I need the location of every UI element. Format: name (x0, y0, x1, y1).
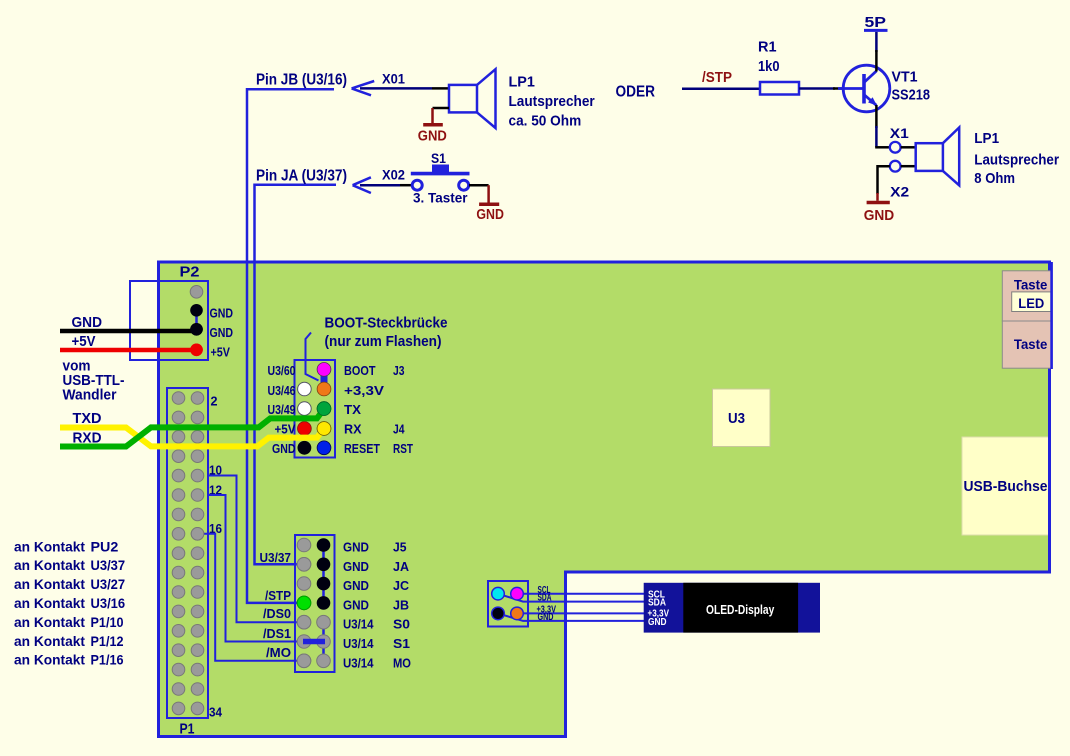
P2 pin 2 GND (black) (190, 304, 203, 317)
BOOT pin RESET (blue) (317, 441, 331, 455)
BOOT pin BOOT (magenta) (317, 363, 331, 377)
button Taste upper (pink box) (1002, 271, 1051, 321)
transistor VT1 emitter slant (865, 95, 877, 105)
header pin U3/37 redraw (on top of wire) (297, 558, 311, 572)
svg-text:U3/37: U3/37 (91, 557, 126, 573)
wire X01 net (360, 87, 432, 90)
svg-text:Pin JA (U3/37): Pin JA (U3/37) (256, 168, 347, 185)
svg-text:an Kontakt: an Kontakt (14, 614, 85, 630)
svg-text:RX: RX (344, 421, 362, 436)
svg-text:Pin JB (U3/16): Pin JB (U3/16) (256, 72, 347, 89)
svg-text:5P: 5P (865, 14, 887, 31)
svg-text:34: 34 (209, 706, 222, 720)
svg-text:J5: J5 (393, 540, 407, 555)
svg-text:TXD: TXD (73, 410, 102, 427)
BOOT pin +3,3V (orange) (317, 382, 331, 396)
svg-text:PU2: PU2 (91, 538, 119, 554)
pin lead LP1 bottom (433, 107, 450, 110)
svg-text:JA: JA (393, 559, 410, 574)
pin lead S1 right (469, 184, 489, 187)
OLED pin SDA (magenta) (511, 587, 524, 600)
svg-text:LED: LED (1018, 296, 1044, 311)
speaker LP1 50 Ohm horn (477, 69, 496, 128)
svg-text:P1/10: P1/10 (91, 614, 124, 630)
svg-text:/MO: /MO (266, 645, 291, 660)
svg-text:X1: X1 (890, 125, 909, 141)
svg-text:+5V: +5V (211, 345, 231, 360)
svg-text:/DS0: /DS0 (263, 606, 291, 621)
svg-text:S1: S1 (393, 636, 410, 651)
svg-text:SDA: SDA (538, 593, 552, 604)
svg-text:U3/14: U3/14 (343, 636, 374, 651)
header pin /DS0 redraw (on top of wire) (297, 615, 311, 629)
arrow X02 (353, 177, 371, 193)
svg-text:GND: GND (476, 207, 504, 223)
svg-text:ODER: ODER (616, 84, 656, 101)
header pin S1 (gray) (317, 635, 331, 649)
svg-text:U3: U3 (728, 411, 745, 427)
svg-text:LP1: LP1 (974, 130, 999, 147)
svg-text:GND: GND (343, 578, 369, 593)
svg-text:U3/27: U3/27 (91, 576, 126, 592)
P2 pin 3 GND redraw (on top of wire) (190, 323, 203, 336)
board PCB (green, L-shaped) (159, 262, 1050, 737)
svg-text:U3/49: U3/49 (268, 402, 296, 417)
speaker LP1 8 Ohm body (916, 143, 943, 171)
pin lead LP1 top (432, 87, 449, 90)
svg-text:an Kontakt: an Kontakt (14, 538, 85, 554)
header pin row5 left (gray) (297, 615, 311, 629)
resistor R1 (760, 82, 799, 95)
svg-text:X01: X01 (382, 71, 405, 87)
svg-text:2: 2 (211, 395, 218, 409)
chip U3 box (713, 389, 771, 447)
board right edge over USB box (1048, 436, 1051, 537)
wire Pin JA to U3/37 pin (255, 185, 337, 565)
svg-text:/DS1: /DS1 (263, 626, 291, 641)
wire R1 to VT1 base (799, 87, 835, 90)
svg-text:an Kontakt: an Kontakt (14, 652, 85, 668)
BOOT jumper link (magenta-orange) (321, 369, 328, 389)
ground GND at VT1 (867, 201, 890, 205)
OLED-Display module (644, 583, 820, 633)
svg-text:+5V: +5V (72, 333, 96, 350)
wire X02 net (360, 184, 400, 187)
arrow X01 (352, 81, 375, 95)
switch S1 contact left (412, 180, 422, 190)
connector P2 box (130, 281, 208, 360)
BOOT pin RX redraw (on top of wire) (317, 422, 331, 436)
svg-text:MO: MO (393, 655, 411, 670)
svg-text:X2: X2 (890, 184, 909, 200)
svg-text:+3,3V: +3,3V (344, 383, 384, 398)
header pin row1 left (gray) (297, 538, 311, 552)
svg-text:Taste: Taste (1014, 277, 1048, 293)
header pin row3 left (gray) (297, 577, 311, 591)
switch S1 contact right (459, 180, 469, 190)
svg-text:U3/37: U3/37 (260, 550, 292, 565)
svg-text:GND: GND (648, 616, 667, 628)
P2 pin 4 +5V redraw (on top of wire) (190, 344, 203, 357)
P1 pin 16 redraw (on top of wire) (191, 528, 204, 541)
transistor VT1 base bar (862, 74, 866, 104)
BOOT pin U3/46 (white) (298, 382, 312, 396)
OLED pin GND (black) (492, 607, 505, 620)
svg-text:GND: GND (343, 597, 369, 612)
header pin GND J5 (black) (317, 538, 331, 552)
svg-text:RST: RST (393, 441, 413, 456)
svg-text:P1/16: P1/16 (91, 652, 124, 668)
OLED pin SCL (cyan) (492, 587, 505, 600)
svg-text:TX: TX (344, 402, 361, 417)
BOOT pin TX (green) (317, 402, 331, 416)
svg-text:USB-Buchse: USB-Buchse (964, 479, 1048, 495)
wire P1/16 to /MO (198, 534, 305, 661)
BOOT pin RX (yellow) (317, 422, 331, 436)
svg-text:JB: JB (393, 597, 409, 612)
wire SCL (517, 593, 646, 595)
svg-text:3. Taster: 3. Taster (413, 191, 468, 206)
svg-text:an Kontakt: an Kontakt (14, 595, 85, 611)
pointer line BOOT label to pin (306, 333, 319, 381)
header pin /STP redraw (on top of wire) (297, 596, 311, 610)
header pin GND JC (black) (317, 577, 331, 591)
pin lead S1 left (400, 184, 412, 187)
wire X2 to GND (878, 166, 890, 194)
BOOT pin TX redraw (on top of wire) (317, 402, 331, 416)
P1 pins (17 rows x 2) (172, 392, 204, 715)
svg-text:GND: GND (210, 306, 234, 321)
P2 pin 4 +5V (red) (190, 344, 203, 357)
header BOOT box (295, 360, 336, 458)
svg-text:an Kontakt: an Kontakt (14, 633, 85, 649)
connector P1 box (167, 388, 208, 718)
svg-text:GND: GND (418, 129, 447, 145)
wire P1/12 to /DS1 (208, 495, 304, 642)
svg-text:Lautsprecher: Lautsprecher (974, 151, 1059, 168)
svg-text:ca. 50 Ohm: ca. 50 Ohm (509, 112, 582, 129)
svg-text:R1: R1 (758, 39, 777, 56)
svg-text:LP1: LP1 (509, 74, 535, 91)
wire SDA (498, 594, 646, 602)
pin lead X1 to LP1 (901, 146, 916, 149)
svg-text:U3/60: U3/60 (268, 363, 296, 378)
P2 jumper link pins 2-3 (195, 310, 198, 329)
wire +5V (red) (60, 348, 197, 353)
BOOT pin U3/49 (white) (298, 402, 312, 416)
svg-text:BOOT: BOOT (344, 363, 376, 378)
ground GND at S1 (487, 185, 490, 203)
button Taste lower (pink box) (1002, 321, 1051, 368)
svg-text:SS218: SS218 (892, 87, 931, 104)
svg-text:OLED-Display: OLED-Display (706, 602, 775, 617)
ground GND at LP1 (431, 108, 434, 124)
wire TXD (yellow) (60, 428, 324, 447)
wire P1/10 to /DS0 (208, 476, 304, 623)
transistor VT1 circle (843, 65, 890, 112)
svg-text:P1/12: P1/12 (91, 633, 124, 649)
svg-text:GND: GND (72, 314, 103, 331)
switch S1 bar (411, 172, 470, 176)
svg-text:an Kontakt: an Kontakt (14, 576, 85, 592)
board right edge beside Taste boxes (1050, 262, 1053, 369)
wire emitter to X1 (875, 105, 878, 128)
svg-text:GND: GND (343, 559, 369, 574)
transistor VT1 base lead (838, 87, 863, 90)
svg-text:GND: GND (272, 441, 296, 456)
svg-text:J3: J3 (393, 363, 405, 378)
node X1 (890, 142, 901, 153)
svg-text:1k0: 1k0 (758, 58, 780, 75)
svg-text:S0: S0 (393, 617, 410, 632)
svg-text:Lautsprecher: Lautsprecher (509, 93, 595, 110)
svg-text:VT1: VT1 (892, 69, 918, 86)
transistor VT1 emitter arrow (868, 97, 877, 106)
USB-Buchse box (962, 437, 1050, 535)
BOOT pin +5V (red) (298, 422, 312, 436)
svg-text:X02: X02 (382, 167, 405, 183)
header pin row7 left (gray) (297, 654, 311, 668)
header J5..MO box (295, 535, 335, 672)
LED box (1012, 292, 1051, 312)
OLED 4-pin connector box (488, 581, 528, 627)
svg-text:J4: J4 (393, 421, 405, 436)
svg-text:BOOT-Steckbrücke: BOOT-Steckbrücke (325, 315, 448, 332)
svg-text:GND: GND (864, 207, 895, 224)
link pins rows5-7 (322, 622, 325, 661)
link GND pins rows1-4 (322, 545, 325, 603)
wire ODER to R1 (682, 88, 760, 91)
pin lead X2 to LP1 (901, 165, 916, 168)
svg-text:RESET: RESET (344, 441, 380, 456)
transistor VT1 collector slant (865, 71, 877, 82)
P2 pin 1 (gray) (190, 286, 203, 299)
BOOT pin GND (black) (298, 441, 312, 455)
speaker LP1 50 Ohm body (449, 85, 477, 113)
svg-text:an Kontakt: an Kontakt (14, 557, 85, 573)
svg-text:8 Ohm: 8 Ohm (974, 170, 1015, 187)
svg-text:(nur zum Flashen): (nur zum Flashen) (325, 333, 442, 350)
header pin row6 left (gray) (297, 635, 311, 649)
wire 5P to collector (875, 32, 878, 52)
jumper S1 row (thick blue) (303, 639, 325, 645)
svg-text:S1: S1 (431, 151, 446, 166)
svg-text:U3/14: U3/14 (343, 617, 374, 632)
wire Pin JB to /STP pin (247, 89, 334, 603)
header pin /MO redraw (on top of wire) (297, 654, 311, 668)
header pin MO (gray) (317, 654, 331, 668)
svg-text:GND: GND (343, 540, 369, 555)
switch S1 button (432, 165, 449, 173)
speaker LP1 8 Ohm horn (943, 128, 959, 186)
header pin S0 (gray) (317, 615, 331, 629)
svg-text:P1: P1 (180, 722, 195, 738)
wire GND (black) from USB-TTL (60, 329, 197, 334)
svg-text:/STP: /STP (265, 588, 291, 603)
wire +3,3V (517, 612, 646, 614)
svg-text:GND: GND (210, 325, 234, 340)
OLED pin +3,3V (orange) (511, 607, 524, 620)
wire GND oled (498, 613, 646, 621)
svg-text:U3/14: U3/14 (343, 655, 374, 670)
header pin /STP (green) (297, 596, 311, 610)
wire RXD (green) (60, 409, 324, 447)
svg-text:U3/46: U3/46 (268, 383, 296, 398)
svg-text:U3/16: U3/16 (91, 595, 126, 611)
svg-text:+5V: +5V (275, 421, 296, 436)
svg-text:JC: JC (393, 578, 410, 593)
svg-text:P2: P2 (180, 265, 200, 281)
node X2 (890, 161, 901, 172)
svg-text:Taste: Taste (1014, 336, 1048, 352)
P2 pin 3 GND (black) (190, 323, 203, 336)
svg-text:/STP: /STP (702, 69, 732, 86)
svg-text:GND: GND (538, 612, 554, 623)
header pin GND JA (black) (317, 558, 331, 572)
header pin row2 left (gray) (297, 558, 311, 572)
svg-text:Wandler: Wandler (63, 388, 117, 404)
header pin GND JB (black) (317, 596, 331, 610)
svg-text:RXD: RXD (73, 430, 102, 447)
